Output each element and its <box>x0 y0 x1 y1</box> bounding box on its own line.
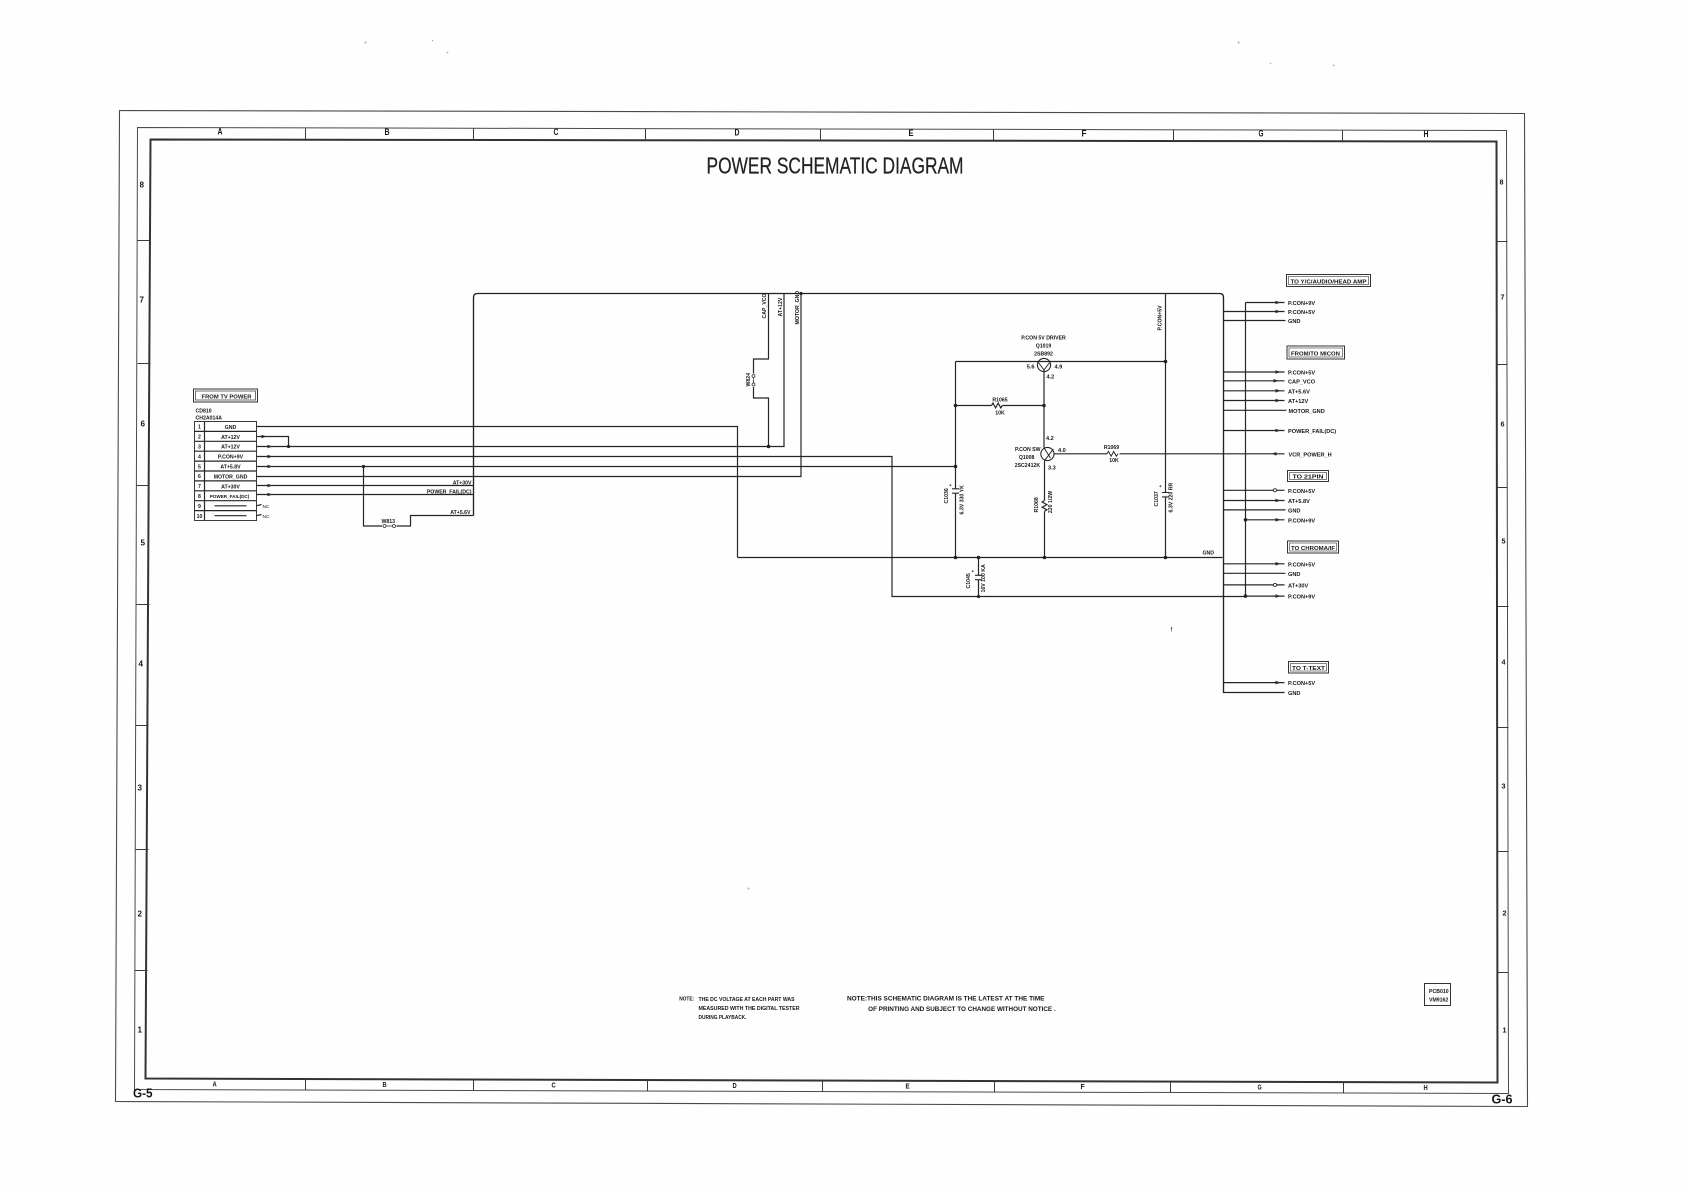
svg-text:+: + <box>948 484 953 487</box>
bottom ticks <box>306 1080 1344 1094</box>
svg-text:3.3: 3.3 <box>1048 466 1056 472</box>
junction P.CON+5V rail <box>1164 360 1168 364</box>
svg-text:AT+30V: AT+30V <box>1288 583 1309 589</box>
junction R1065 right <box>1042 404 1046 408</box>
svg-text:7: 7 <box>198 484 201 490</box>
svg-text:GND: GND <box>1288 572 1300 578</box>
svg-text:FROM TV POWER: FROM TV POWER <box>202 395 252 401</box>
svg-text:R1068: R1068 <box>1034 497 1040 512</box>
svg-text:4.0: 4.0 <box>1058 448 1066 454</box>
svg-text:AT+30V: AT+30V <box>221 484 240 490</box>
pin 8 POWER_FAIL(DC) <box>198 494 250 500</box>
net label AT+30V <box>453 481 472 487</box>
connector CD810 CH2A014A designator <box>196 409 223 422</box>
svg-text:f: f <box>1171 628 1173 634</box>
right ticks <box>1497 242 1509 973</box>
wire P.CON+9V to 21pin <box>1246 518 1316 524</box>
svg-text:DURING PLAYBACK.: DURING PLAYBACK. <box>699 1015 747 1021</box>
net label AT+12V riser <box>778 297 784 316</box>
net label AT+5.6V <box>450 510 471 516</box>
wire GND to chroma <box>1224 572 1301 578</box>
svg-text:MOTOR_GND: MOTOR_GND <box>214 474 248 480</box>
bus cable outline <box>474 294 1285 693</box>
svg-text:MOTOR_GND: MOTOR_GND <box>795 291 801 325</box>
net label MOTOR_GND riser <box>795 291 801 325</box>
capacitor C1036 <box>944 362 966 558</box>
svg-text:8: 8 <box>198 494 201 500</box>
svg-text:G-6: G-6 <box>1492 1092 1513 1107</box>
resistor R1068 <box>1034 491 1054 558</box>
value 3.3V at Q1008 emitter <box>1048 466 1056 472</box>
wire AT+12V to micon <box>1224 399 1309 405</box>
wire AT+5.8V from pin 5 <box>257 465 956 469</box>
stray scan specks <box>365 40 1335 890</box>
value 4.2V at Q1008 collector <box>1046 436 1054 442</box>
svg-text:OF PRINTING AND SUBJECT TO CHA: OF PRINTING AND SUBJECT TO CHANGE WITHOU… <box>868 1006 1056 1013</box>
wire P.CON+5V to micon <box>1224 370 1316 376</box>
svg-text:1: 1 <box>1503 1026 1507 1035</box>
svg-text:4.2: 4.2 <box>1047 375 1055 381</box>
svg-text:P.CON+5V: P.CON+5V <box>1288 489 1315 495</box>
wire AT+5.8V to 21pin <box>1224 499 1311 505</box>
pin 1 GND <box>198 425 236 431</box>
svg-text:GND: GND <box>1288 508 1300 514</box>
svg-text:P.CON+5V: P.CON+5V <box>1288 371 1315 377</box>
wire emitter rail Q1019 <box>956 361 1166 363</box>
junction AT+5.8V at C1036 <box>954 465 958 469</box>
svg-text:5: 5 <box>198 464 201 470</box>
svg-text:POWER_FAIL(DC): POWER_FAIL(DC) <box>210 494 250 499</box>
svg-text:GND: GND <box>1288 691 1300 697</box>
svg-text:6: 6 <box>198 474 201 480</box>
svg-text:+: + <box>1158 485 1163 488</box>
svg-text:220 1/2W: 220 1/2W <box>1048 491 1054 513</box>
wire CAP_VCO riser with W824 jog <box>754 294 769 447</box>
svg-text:+: + <box>971 570 976 573</box>
svg-text:5: 5 <box>141 538 146 548</box>
svg-text:CD810: CD810 <box>196 409 212 415</box>
wire Q1019 base to Q1008 collector <box>1043 406 1045 448</box>
wire AT+12V from pin 3 to riser <box>257 294 785 449</box>
wire GND bus bottom <box>738 557 1223 559</box>
svg-text:4: 4 <box>139 659 144 669</box>
svg-text:GND: GND <box>1203 551 1215 557</box>
pin 3 AT+12V <box>198 445 240 451</box>
svg-text:MOTOR_GND: MOTOR_GND <box>1289 409 1325 415</box>
resistor R1065 <box>956 398 1045 417</box>
svg-text:FROM/TO MICON: FROM/TO MICON <box>1291 352 1340 358</box>
junction CAP_VCO to AT+12V line <box>767 445 771 449</box>
svg-text:2SB892: 2SB892 <box>1034 352 1053 358</box>
svg-text:F: F <box>1081 1082 1086 1091</box>
svg-text:P.CON+5V: P.CON+5V <box>1158 305 1164 331</box>
svg-text:C1037: C1037 <box>1154 491 1160 506</box>
svg-text:P.CON+9V: P.CON+9V <box>1288 301 1315 307</box>
svg-text:VM9162: VM9162 <box>1429 998 1448 1004</box>
connector heading TO 21PIN <box>1288 471 1329 482</box>
svg-text:Q1008: Q1008 <box>1019 455 1035 461</box>
svg-text:8: 8 <box>140 180 145 190</box>
svg-text:3: 3 <box>138 783 143 793</box>
svg-text:P.CON+9V: P.CON+9V <box>218 455 244 461</box>
wire AT+12V from pin 2 <box>257 435 289 447</box>
svg-text:POWER_FAIL(DC): POWER_FAIL(DC) <box>1288 429 1336 435</box>
svg-text:A: A <box>218 127 223 138</box>
pin 5 AT+5.8V <box>198 464 241 470</box>
value 4.9V at Q1019 <box>1055 365 1063 371</box>
svg-text:C: C <box>554 127 559 138</box>
pin 6 MOTOR_GND <box>198 474 248 480</box>
capacitor C1037 <box>1154 483 1175 513</box>
junction pin2/pin3 AT+12V <box>287 445 290 448</box>
svg-text:CH2A014A: CH2A014A <box>196 416 223 422</box>
wire GND to 21pin <box>1224 508 1301 514</box>
svg-text:NC: NC <box>263 504 270 510</box>
svg-text:6: 6 <box>1501 420 1505 429</box>
svg-text:W824: W824 <box>746 373 752 387</box>
wire AT+30V from pin 7 <box>257 484 474 488</box>
svg-text:P.CON+5V: P.CON+5V <box>1288 681 1315 687</box>
svg-text:H: H <box>1424 129 1429 140</box>
junction P.CON+9V stub 21PIN <box>1244 518 1248 522</box>
svg-text:B: B <box>383 1080 388 1089</box>
svg-text:AT+12V: AT+12V <box>1288 399 1309 405</box>
svg-text:F: F <box>1082 128 1087 139</box>
svg-text:D: D <box>735 128 740 139</box>
svg-text:4: 4 <box>198 454 201 460</box>
transistor Q1008 <box>1015 447 1107 501</box>
svg-text:G: G <box>1258 1083 1262 1092</box>
svg-text:5.6: 5.6 <box>1027 365 1035 371</box>
svg-text:E: E <box>906 1082 910 1091</box>
TEXTS-START <box>679 997 799 1022</box>
svg-text:1: 1 <box>198 425 201 431</box>
wire P.CON+9V distribution vertical <box>1245 303 1247 597</box>
wire GND from pin 1 <box>257 427 738 558</box>
svg-text:G: G <box>1259 129 1264 140</box>
net label GND <box>1203 551 1215 557</box>
svg-text:2: 2 <box>1503 909 1507 918</box>
svg-text:AT+5.6V: AT+5.6V <box>450 510 471 516</box>
svg-text:R1069: R1069 <box>1104 445 1119 451</box>
svg-text:NC: NC <box>263 514 270 520</box>
svg-text:P.CON+5V: P.CON+5V <box>1288 310 1315 316</box>
svg-text:W813: W813 <box>382 519 396 525</box>
wire P.CON+5V to 21pin <box>1224 489 1316 495</box>
svg-text:MEASURED WITH THE DIGITAL TEST: MEASURED WITH THE DIGITAL TESTER <box>699 1006 800 1012</box>
svg-text:P.CON+9V: P.CON+9V <box>1288 595 1315 601</box>
svg-text:10K: 10K <box>995 411 1005 417</box>
net label CAP_VCO <box>762 293 768 318</box>
svg-text:POWER SCHEMATIC DIAGRAM: POWER SCHEMATIC DIAGRAM <box>707 153 964 179</box>
svg-text:AT+5.6V: AT+5.6V <box>1288 389 1310 395</box>
transistor Q1019 <box>1021 336 1066 406</box>
capacitor C1045 <box>966 558 987 597</box>
svg-text:6.3V 330 YK: 6.3V 330 YK <box>960 485 966 515</box>
junction C1037 GND <box>1164 556 1168 560</box>
pin 4 P.CON+9V <box>198 454 244 460</box>
value 4.0V at Q1008 base <box>1058 448 1066 454</box>
wire P.CON+5V vertical with C1037 <box>1165 294 1167 558</box>
wire P.CON+5V to t-text <box>1224 681 1316 687</box>
wire P.CON+9V to head amp <box>1246 301 1316 307</box>
svg-text:TO 21PIN: TO 21PIN <box>1293 475 1324 481</box>
connector heading TO T-TEXT <box>1289 662 1329 674</box>
wire CAP_VCO to micon <box>1224 379 1316 385</box>
svg-text:P.CON+5V: P.CON+5V <box>1288 562 1315 568</box>
junction AT+5.8V branch <box>362 465 365 468</box>
svg-text:4.2: 4.2 <box>1046 436 1054 442</box>
wire P.CON+5V to chroma <box>1224 562 1316 568</box>
svg-text:9: 9 <box>198 504 201 510</box>
svg-text:NOTE:: NOTE: <box>679 997 694 1003</box>
svg-text:TO CHROMA/IF: TO CHROMA/IF <box>1291 546 1336 552</box>
svg-text:PCB010: PCB010 <box>1429 989 1449 995</box>
junction MOTOR_GND at cable <box>799 292 802 295</box>
svg-text:Q1019: Q1019 <box>1036 344 1052 350</box>
svg-text:TO T-TEXT: TO T-TEXT <box>1292 666 1326 672</box>
svg-text:6.3V 220 RR: 6.3V 220 RR <box>1169 483 1175 513</box>
wire GND to t-text label <box>1288 691 1300 697</box>
connector CD810 body <box>195 422 257 521</box>
svg-text:AT+30V: AT+30V <box>453 481 472 487</box>
svg-text:GND: GND <box>225 425 237 431</box>
wire AT+5.6V branch through W813 <box>364 467 474 527</box>
svg-text:AT+12V: AT+12V <box>221 445 240 451</box>
svg-text:AT+5.8V: AT+5.8V <box>220 465 241 471</box>
net label P.CON+5V riser <box>1158 305 1164 331</box>
svg-text:7: 7 <box>1501 293 1505 302</box>
pin 2 AT+12V <box>198 435 240 441</box>
wire POWER_FAIL(DC) from pin 8 <box>257 493 474 497</box>
svg-text:NOTE:THIS SCHEMATIC DIAGRAM IS: NOTE:THIS SCHEMATIC DIAGRAM IS THE LATES… <box>847 996 1045 1003</box>
svg-text:2: 2 <box>138 909 143 919</box>
pin 10 NC <box>197 514 270 520</box>
svg-text:6: 6 <box>141 419 146 429</box>
svg-text:AT+12V: AT+12V <box>778 297 784 316</box>
svg-text:4.9: 4.9 <box>1055 365 1063 371</box>
top ticks <box>306 129 1343 142</box>
svg-text:GND: GND <box>1288 319 1300 325</box>
stray mark f <box>1171 628 1173 634</box>
svg-text:G-5: G-5 <box>133 1086 153 1101</box>
svg-text:10: 10 <box>197 514 203 520</box>
connector heading TO CHROMA/IF <box>1288 541 1339 553</box>
svg-text:5: 5 <box>1502 537 1506 546</box>
svg-text:7: 7 <box>140 295 145 305</box>
wire POWER_FAIL(DC) to micon <box>1224 429 1337 435</box>
wire VCR_POWER_H from micon <box>1120 452 1332 458</box>
wire P.CON+5V to head amp <box>1224 310 1316 316</box>
svg-text:4: 4 <box>1502 658 1507 667</box>
junction C1045 GND bus <box>977 556 981 560</box>
svg-text:3: 3 <box>198 445 201 451</box>
svg-text:E: E <box>909 128 914 139</box>
svg-text:10K: 10K <box>1109 458 1119 464</box>
svg-text:THE DC VOLTAGE AT EACH PART WA: THE DC VOLTAGE AT EACH PART WAS <box>699 997 795 1003</box>
wire GND to head amp <box>1224 319 1301 325</box>
svg-text:R1065: R1065 <box>992 398 1007 404</box>
wire AT+30V to chroma <box>1224 583 1309 589</box>
jumper W824 <box>746 373 755 387</box>
svg-text:CAP_VCO: CAP_VCO <box>1288 379 1316 385</box>
resistor R1069 <box>1104 445 1119 464</box>
svg-text:8: 8 <box>1500 178 1504 187</box>
wire P.CON+9V from pin 4 <box>257 455 1246 597</box>
svg-text:C1036: C1036 <box>944 488 950 503</box>
svg-text:CAP_VCO: CAP_VCO <box>762 293 768 318</box>
svg-text:P.CON+9V: P.CON+9V <box>1288 518 1315 524</box>
svg-text:C: C <box>552 1081 557 1090</box>
svg-text:POWER_FAIL(DC): POWER_FAIL(DC) <box>427 490 472 496</box>
junction R1065 left <box>954 404 958 408</box>
wire AT+5.6V to micon <box>1224 389 1311 395</box>
svg-text:VCR_POWER_H: VCR_POWER_H <box>1289 452 1332 458</box>
left ticks <box>135 241 151 971</box>
svg-text:A: A <box>213 1080 218 1089</box>
svg-text:H: H <box>1424 1083 1428 1092</box>
junction C1036 GND <box>954 556 958 560</box>
svg-text:P.CON 5V DRIVER: P.CON 5V DRIVER <box>1021 336 1066 342</box>
svg-text:2SC2412K: 2SC2412K <box>1015 463 1041 469</box>
svg-text:16V 100 KA: 16V 100 KA <box>981 564 987 593</box>
svg-text:3: 3 <box>1502 782 1506 791</box>
value 5.6V at Q1019 <box>1027 365 1035 371</box>
svg-text:1: 1 <box>138 1025 143 1035</box>
svg-text:C1045: C1045 <box>966 573 972 588</box>
svg-text:AT+5.8V: AT+5.8V <box>1288 499 1310 505</box>
pin 9 NC <box>198 504 270 510</box>
jumper W813 <box>382 519 396 528</box>
svg-text:B: B <box>385 127 390 138</box>
connector heading FROM TV POWER <box>194 389 258 402</box>
wire P.CON+9V lower rail junction dots <box>977 594 1247 598</box>
svg-text:D: D <box>733 1081 738 1090</box>
svg-text:AT+12V: AT+12V <box>221 435 240 441</box>
junction R1068 GND <box>1043 556 1047 560</box>
FRAME-START <box>116 40 1528 1107</box>
connector heading FROM/TO MICON <box>1287 346 1345 359</box>
svg-text:TO Y/C/AUDIO/HEAD AMP: TO Y/C/AUDIO/HEAD AMP <box>1291 279 1367 285</box>
connector heading TO Y/C/AUDIO/HEAD AMP <box>1287 275 1371 287</box>
svg-text:P.CON SW: P.CON SW <box>1015 447 1041 453</box>
value 4.2V at Q1019 base <box>1047 375 1055 381</box>
wire MOTOR_GND to micon <box>1224 409 1325 415</box>
pin 7 AT+30V <box>198 484 240 490</box>
net label POWER_FAIL(DC) <box>427 490 472 496</box>
wire MOTOR_GND from pin 6 <box>257 294 802 477</box>
wire P.CON+9V to chroma <box>1246 594 1316 600</box>
svg-text:2: 2 <box>198 435 201 441</box>
